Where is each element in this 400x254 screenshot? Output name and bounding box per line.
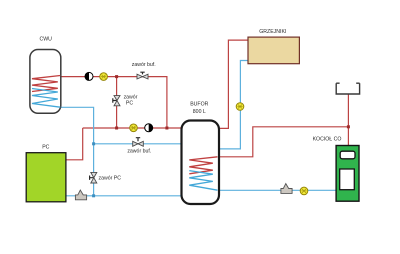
svg-text:CWU: CWU (40, 37, 53, 43)
svg-text:800 L: 800 L (193, 109, 206, 115)
svg-text:BUFOR: BUFOR (190, 101, 208, 107)
svg-text:zawór PC: zawór PC (99, 176, 122, 182)
svg-text:GRZEJNIKI: GRZEJNIKI (259, 29, 286, 35)
svg-text:PC: PC (42, 145, 49, 151)
svg-text:zawór buf.: zawór buf. (127, 148, 151, 154)
svg-text:PC: PC (126, 101, 133, 107)
svg-text:zawór buf.: zawór buf. (132, 62, 156, 68)
svg-text:KOCIOŁ CO: KOCIOŁ CO (313, 136, 342, 142)
